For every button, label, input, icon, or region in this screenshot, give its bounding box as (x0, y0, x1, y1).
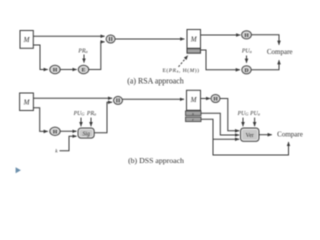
wire PUG -> Ver (242, 118, 244, 127)
svg-text:M: M (190, 35, 198, 43)
decrypt D (receiver, RSA) (242, 66, 251, 74)
wire M1 -> H1 (33, 45, 48, 70)
message box M (sender, RSA) (20, 31, 33, 49)
svg-text:PRa: PRa (77, 48, 87, 54)
message box M (sender, DSS) (20, 93, 34, 111)
svg-text:(a) RSA approach: (a) RSA approach (127, 76, 184, 85)
verification function Ver (241, 128, 260, 141)
hash function H (receiver, DSS) (211, 95, 220, 103)
wire M4 -> H4 (201, 98, 211, 100)
svg-text:PUa: PUa (241, 48, 252, 54)
svg-text:D: D (244, 68, 248, 74)
wire r -> Compare (bottom loop) (213, 139, 289, 155)
hash function H (receiver, RSA) (242, 31, 252, 39)
dashed pointer to signature (179, 56, 188, 67)
wire s -> Ver (201, 113, 239, 135)
svg-text:PUa: PUa (249, 111, 260, 117)
svg-text:Ver: Ver (246, 133, 254, 139)
wire M3 -> concat circle (bottom) (33, 97, 112, 99)
wire H1 -> E (60, 69, 77, 71)
wire PRa -> Sig (90, 118, 92, 127)
svg-text:PUG: PUG (73, 111, 85, 117)
wire signature -> D (201, 50, 240, 70)
svg-text:Compare: Compare (267, 48, 293, 56)
svg-text:r: r (192, 117, 194, 122)
wire r -> Ver (201, 119, 239, 139)
wire M2 -> H2 (201, 34, 241, 36)
svg-text:H: H (213, 97, 218, 103)
svg-text:M: M (23, 36, 31, 44)
svg-text:PUG: PUG (237, 111, 249, 117)
svg-text:s: s (192, 111, 194, 116)
concatenate circle (RSA) (106, 35, 115, 43)
wire PUa -> D (246, 56, 248, 63)
svg-text:PRa: PRa (86, 111, 96, 117)
received message box M (receiver, DSS) (187, 90, 201, 110)
concatenate circle (DSS) (114, 96, 123, 104)
svg-text:H: H (244, 33, 249, 39)
wire D -> Compare (251, 60, 279, 70)
wire H4 -> Ver (220, 99, 239, 131)
received message box M (receiver, RSA) (187, 30, 201, 49)
wire k -> Sig (60, 136, 77, 151)
wire concat -> M4 (123, 98, 185, 100)
svg-text:(b) DSS approach: (b) DSS approach (128, 156, 184, 165)
wire PUa -> Ver (254, 118, 256, 127)
wire E -> concat circle (89, 42, 105, 70)
hash function H (sender, DSS) (50, 127, 60, 135)
svg-text:M: M (190, 96, 198, 104)
wire concat -> M2 (115, 38, 184, 40)
attached s block (186, 111, 202, 116)
wire PUG -> Sig (80, 118, 82, 127)
wire PRa -> E (83, 55, 85, 63)
encrypt E (sender, RSA) (78, 65, 88, 73)
svg-text:Sig: Sig (82, 131, 90, 137)
svg-text:E(PRa, H(M)): E(PRa, H(M)) (162, 67, 199, 74)
svg-text:H: H (53, 68, 58, 74)
attached signature block (gray, RSA) (187, 49, 201, 54)
wire Ver -> Compare (259, 134, 272, 136)
svg-text:E: E (82, 68, 86, 74)
wire M3 -> H3 (33, 108, 47, 132)
svg-text:Compare: Compare (277, 131, 303, 139)
slide play marker (16, 167, 21, 173)
wire Sig -> concat circle (94, 102, 112, 133)
wire H2 -> Compare (251, 35, 279, 45)
hash function H (sender, RSA) (50, 65, 60, 73)
svg-text:M: M (23, 98, 31, 106)
wire H3 -> Sig (60, 130, 77, 132)
wire M1 -> concat circle (top) (33, 35, 104, 37)
attached r block (186, 117, 202, 122)
signature function Sig (78, 128, 94, 138)
svg-text:k: k (55, 149, 58, 155)
svg-text:H: H (53, 129, 58, 135)
